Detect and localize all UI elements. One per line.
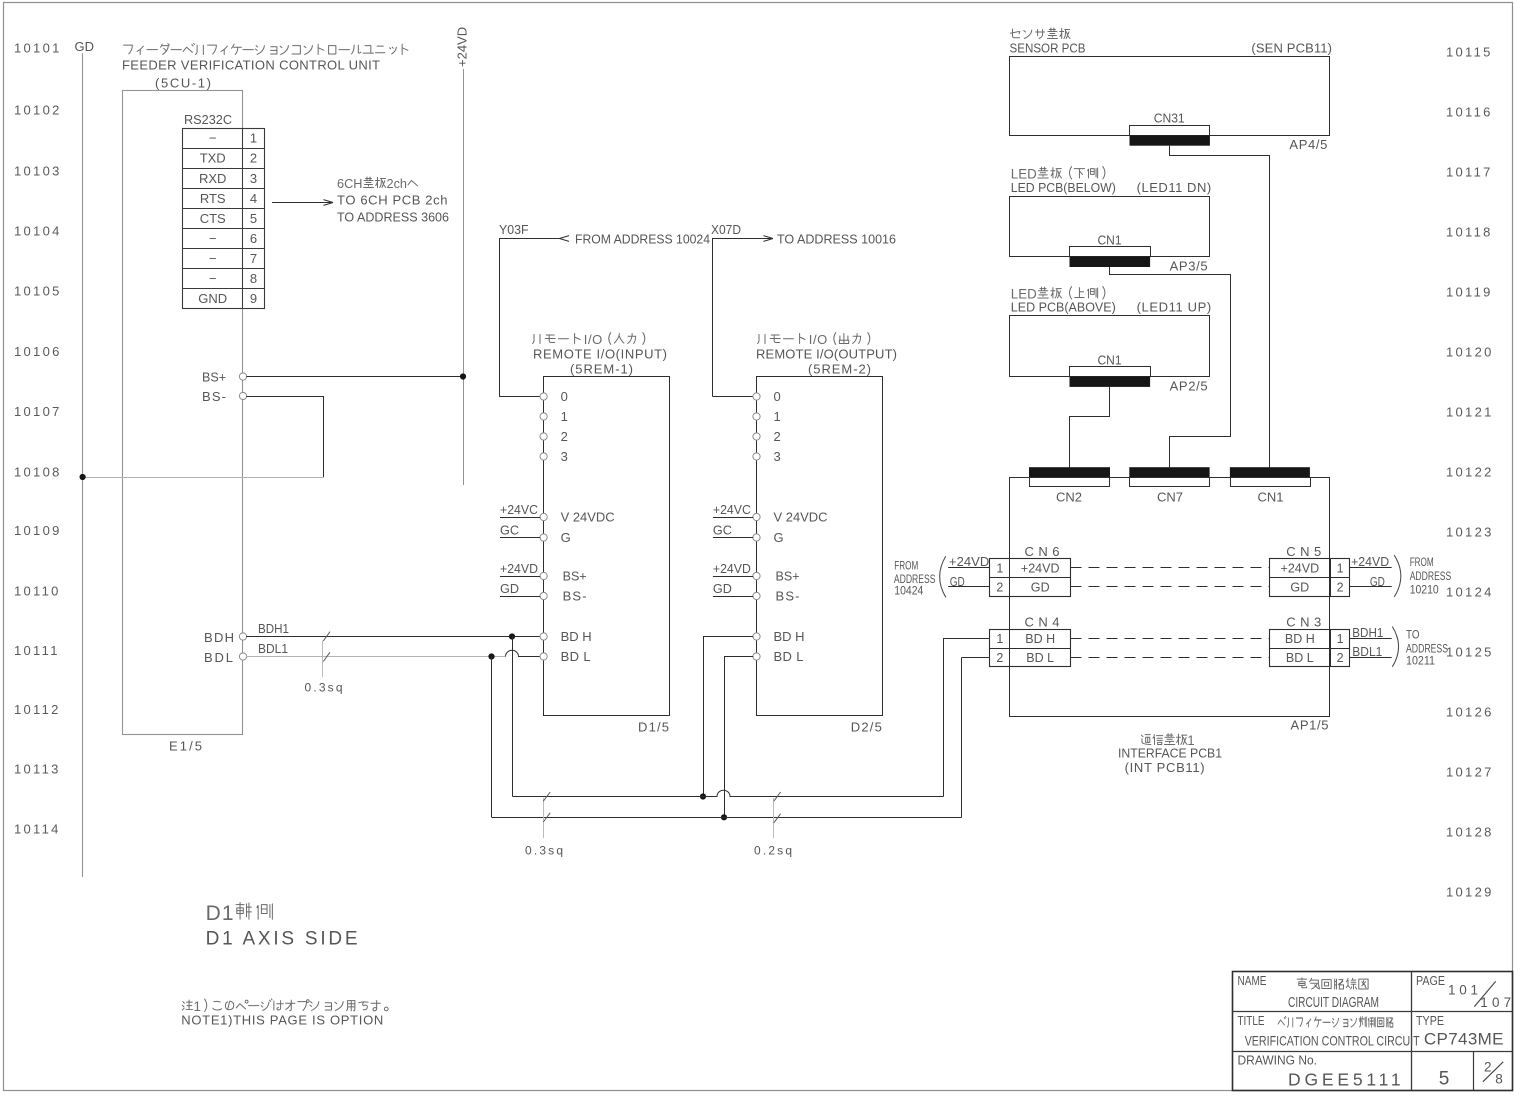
svg-text:BDL1: BDL1 [258,642,288,656]
svg-text:+24VD: +24VD [949,554,989,569]
wire-size slash marks 0.3sq near E1/5 with leader [323,632,331,677]
connector CN1 of LED above [1070,367,1151,387]
bus wire BDH horizontal (hop over D2 BDL drop) [513,790,944,796]
svg-text:CN31: CN31 [1154,111,1185,126]
svg-text:(5CU-1): (5CU-1) [155,76,211,91]
sensor PCB title (Japanese) [1011,28,1071,39]
svg-text:10101: 10101 [14,41,62,56]
stub +24VD out of CN5 [1350,554,1392,569]
pin BS- of D2/5 [753,589,800,604]
connector CN6 pin table [990,559,1071,597]
svg-text:10110: 10110 [14,584,61,599]
module D2/5 title (Japanese) [758,332,870,347]
svg-text:10424: 10424 [894,586,924,598]
svg-text:TO 6CH PCB 2ch: TO 6CH PCB 2ch [337,193,448,208]
dashed wire CN4 to CN3 BD H [1071,638,1270,640]
svg-text:3: 3 [561,449,568,464]
svg-text:5: 5 [1439,1069,1450,1090]
svg-text:BDL: BDL [204,650,233,665]
wire BS+ to +24VD rail [246,376,463,378]
svg-text:2: 2 [1484,1060,1492,1075]
right line-number rail 10115-10129 [1446,45,1494,900]
svg-text:CN1: CN1 [1098,353,1122,368]
svg-text:PAGE: PAGE [1416,974,1445,988]
pin G of D1/5 [540,530,571,545]
pin BD L of D1/5 [540,649,591,664]
wire X07D with arrow to address 10016 [713,236,774,397]
svg-text:1: 1 [561,409,568,424]
wire bus BDL up to CN4 pin2 [962,658,990,818]
svg-text:+24VD: +24VD [1281,562,1320,576]
svg-text:ADDRESS: ADDRESS [1410,571,1452,583]
svg-text:GD: GD [75,39,95,54]
bracket at TO ADDRESS 10211 [1392,627,1398,667]
svg-text:BDH: BDH [204,630,234,645]
svg-text:CN5: CN5 [1286,544,1321,559]
LED PCB below box [1010,197,1210,257]
bracket at FROM ADDRESS 10424 [940,556,946,597]
svg-text:RTS: RTS [200,191,226,206]
svg-text:AP1/5: AP1/5 [1291,718,1329,733]
svg-text:10104: 10104 [14,224,62,239]
svg-text:CIRCUIT DIAGRAM: CIRCUIT DIAGRAM [1288,995,1379,1011]
svg-text:6CH: 6CH [337,176,363,191]
stub GC into D2/5 [713,523,753,538]
label FROM ADDRESS 10210 [1410,557,1452,597]
svg-text:BD L: BD L [1026,651,1054,665]
label D1 axis side (Japanese) [206,902,273,925]
svg-text:CN1: CN1 [1258,490,1284,505]
svg-text:V 24VDC: V 24VDC [561,510,615,525]
svg-text:ADDRESS: ADDRESS [1406,644,1448,656]
svg-text:10108: 10108 [14,465,62,480]
connector CN1 of LED below [1070,247,1151,268]
svg-text:DGEE5111: DGEE5111 [1288,1070,1401,1090]
svg-text:+24VD: +24VD [455,27,470,67]
svg-text:10126: 10126 [1446,705,1494,720]
pins 0-3 of D2/5 [753,389,781,464]
svg-text:2ch: 2ch [387,176,408,191]
svg-text:LED PCB(BELOW): LED PCB(BELOW) [1011,180,1116,195]
svg-text:G: G [561,530,571,545]
wire BS- return to GD rail (light) [83,477,324,479]
wire bus BDH up to CN4 pin1 [943,639,990,797]
connector CN4 pin table [990,629,1071,667]
label FROM ADDRESS 10424 [894,561,936,598]
svg-text:10105: 10105 [14,284,62,299]
module D2/5 box [757,377,883,716]
svg-text:10121: 10121 [1446,405,1494,420]
left line-number rail 10101-10114 [14,41,62,837]
svg-text:RXD: RXD [199,171,226,186]
stub GD out of CN5 [1350,575,1392,589]
svg-text:BDH1: BDH1 [258,622,289,636]
note 1 (Japanese) [182,999,388,1014]
pin BD H of D2/5 [753,629,805,644]
wire BDL1 drop to bus [491,657,493,818]
stub +24VD into CN6 [948,554,990,569]
svg-text:I/O: I/O [584,332,603,347]
svg-text:G: G [774,530,784,545]
svg-text:101: 101 [1448,983,1478,998]
svg-text:V 24VDC: V 24VDC [774,510,828,525]
svg-text:(5REM-2): (5REM-2) [808,362,871,377]
junction dot D2 BDH on bus [700,793,706,799]
svg-text:GD: GD [1031,580,1050,594]
stub +24VD into D2/5 [713,561,753,577]
svg-text:0.3sq: 0.3sq [525,844,563,858]
svg-text:(LED11 UP): (LED11 UP) [1137,300,1212,315]
connector RS232C pin table [183,128,265,309]
pin BS+ of D2/5 [753,569,800,584]
svg-text:Y03F: Y03F [499,223,529,237]
svg-text:CP743ME: CP743ME [1424,1030,1504,1049]
bracket at FROM ADDRESS 10210 [1394,555,1401,597]
connector CN7 on interface [1129,467,1209,504]
svg-text:0: 0 [561,389,568,404]
svg-text:BS-: BS- [563,589,587,604]
svg-text:D2/5: D2/5 [851,720,882,735]
dashed wire CN4 to CN3 BD L [1071,657,1270,659]
svg-text:BS-: BS- [202,389,226,404]
svg-text:0.2sq: 0.2sq [754,844,792,858]
svg-text:9: 9 [250,291,257,306]
svg-text:ADDRESS: ADDRESS [894,574,936,586]
sensor PCB box [1010,57,1330,136]
pins 0-3 of D1/5 [540,389,568,464]
svg-text:FROM: FROM [1410,557,1434,569]
wire LED above CN1 to interface CN2 [1070,387,1110,467]
title feeder verification control unit (Japanese) [124,43,408,54]
svg-text:BD H: BD H [774,629,805,644]
svg-text:6: 6 [250,231,257,246]
svg-text:10106: 10106 [14,344,62,359]
svg-text:TITLE: TITLE [1238,1014,1265,1028]
svg-text:10125: 10125 [1446,645,1494,660]
svg-text:10211: 10211 [1406,656,1435,668]
svg-text:2: 2 [774,429,781,444]
svg-text:BD H: BD H [1285,632,1315,646]
svg-text:GD: GD [1290,580,1309,594]
svg-text:1: 1 [1337,632,1344,646]
pin BD H of D1/5 [540,629,592,644]
stub GD into D1/5 [500,581,540,597]
svg-text:10123: 10123 [1446,525,1494,540]
svg-text:0: 0 [774,389,781,404]
label TO ADDRESS 10211 [1406,630,1448,668]
svg-text:10112: 10112 [14,702,61,717]
svg-text:(SEN PCB11): (SEN PCB11) [1251,41,1332,56]
wire CN31 to interface CN1 [1170,146,1270,468]
wire Y03F with arrow from address 10024 [499,236,569,397]
svg-text:FEEDER VERIFICATION CONTROL UN: FEEDER VERIFICATION CONTROL UNIT [122,58,380,73]
wire BD H of D2/5 to bus [703,637,753,797]
svg-text:NAME: NAME [1238,974,1267,988]
wire GD vertical rail [82,53,84,877]
module D1/5 box [544,377,670,716]
pin G of D2/5 [753,530,784,545]
net +24VD vertical rail with rotated label [455,27,470,485]
stub GC into D1/5 [500,523,540,538]
svg-text:BS+: BS+ [776,569,800,584]
svg-text:10127: 10127 [1446,765,1494,780]
svg-text:CN1: CN1 [1098,233,1122,248]
wire BS- vertical segment [323,396,325,477]
svg-text:2: 2 [1337,651,1344,665]
arrow RS232C to 6CH PCB [272,200,333,206]
title block page number 101/107 [1448,981,1511,1010]
svg-text:10109: 10109 [14,523,62,538]
svg-text:5: 5 [250,211,257,226]
svg-text:2: 2 [996,580,1003,594]
svg-text:+24VD: +24VD [500,561,538,576]
svg-text:10120: 10120 [1446,345,1494,360]
title block circuit diagram (Japanese) [1297,978,1368,989]
wire BDH1 drop to bus [512,637,514,797]
stub GD into D2/5 [713,581,753,597]
pin BS+ of D1/5 [540,569,587,584]
svg-text:TO ADDRESS 10016: TO ADDRESS 10016 [777,232,896,247]
stub BDH1 out of CN3 [1350,626,1392,640]
connector CN1 on interface [1230,467,1311,504]
connector CN2 on interface [1029,467,1110,504]
interface PCB title (Japanese) [1141,733,1194,748]
svg-text:GC: GC [500,523,519,538]
interface PCB box [1010,478,1330,717]
title block sheet 2/8 [1483,1060,1503,1087]
junction dot D2 BDL on bus [721,814,727,820]
svg-text:4: 4 [250,191,257,206]
svg-text:10107: 10107 [14,404,62,419]
stub +24VC into D2/5 [713,502,753,518]
svg-text:−: − [209,131,217,146]
svg-text:LED PCB(ABOVE): LED PCB(ABOVE) [1011,300,1116,315]
junction dot on GD rail line 10108 [80,474,86,480]
svg-text:AP4/5: AP4/5 [1289,137,1327,152]
connector CN5 pin table [1269,559,1350,597]
module D1/5 title (Japanese) [533,332,645,347]
wire BDL1 from E1/5 to 5REM-1 (light, hop over BDH drop) [246,656,505,658]
svg-text:BDL1: BDL1 [1352,645,1382,659]
svg-text:REMOTE I/O(INPUT): REMOTE I/O(INPUT) [533,347,667,362]
svg-text:1: 1 [1337,562,1344,576]
svg-text:TO ADDRESS 3606: TO ADDRESS 3606 [337,210,449,225]
svg-text:10103: 10103 [14,164,62,179]
wire-size slash marks 0.2sq on bus with leader [774,792,781,838]
svg-text:+24VD: +24VD [713,561,751,576]
title block verification control circuit (Japanese, condensed) [1278,1016,1393,1027]
svg-text:10119: 10119 [1446,285,1493,300]
svg-text:GD: GD [500,581,519,596]
stub +24VD into D1/5 [500,561,540,577]
svg-text:10116: 10116 [1446,105,1493,120]
svg-text:(5REM-1): (5REM-1) [570,362,633,377]
svg-text:GND: GND [198,291,227,306]
svg-text:10210: 10210 [1410,585,1439,597]
unit E1/5 box [123,91,243,735]
junction dot BS+/+24VD [460,373,466,379]
svg-text:1: 1 [996,632,1003,646]
svg-text:CN3: CN3 [1286,615,1321,630]
svg-text:TYPE: TYPE [1416,1014,1444,1028]
svg-text:8: 8 [250,271,257,286]
svg-text:I/O: I/O [809,332,828,347]
svg-text:+24VC: +24VC [713,502,751,517]
junction dot BDL1 tap [488,653,494,659]
svg-text:REMOTE I/O(OUTPUT): REMOTE I/O(OUTPUT) [756,347,897,362]
svg-text:+24VD: +24VD [1021,562,1060,576]
svg-text:E1/5: E1/5 [169,739,202,754]
label 6CH PCB 2ch (Japanese) [337,176,418,191]
pin BS+ of E1/5 [202,370,247,385]
svg-text:CN2: CN2 [1056,490,1082,505]
svg-text:+24VD: +24VD [1351,554,1389,569]
svg-text:(LED11 DN): (LED11 DN) [1137,180,1212,195]
svg-text:NOTE1)THIS PAGE IS OPTION: NOTE1)THIS PAGE IS OPTION [181,1013,383,1028]
pin BS- of E1/5 [202,389,247,404]
svg-text:CTS: CTS [200,211,226,226]
pin BD L of D2/5 [753,649,804,664]
bus wire BDL horizontal [492,817,962,819]
wire-size slash marks 0.3sq on bus with leader [543,792,550,838]
svg-text:10115: 10115 [1446,45,1493,60]
svg-text:BD L: BD L [561,649,591,664]
svg-text:X07D: X07D [711,223,741,237]
svg-text:BS-: BS- [776,589,800,604]
svg-text:BDH1: BDH1 [1352,626,1383,640]
wire BDH1 from E1/5 to 5REM-1 [246,636,540,638]
svg-text:RS232C: RS232C [184,112,232,127]
svg-text:VERIFICATION CONTROL CIRCUIT: VERIFICATION CONTROL CIRCUIT [1245,1033,1420,1049]
svg-text:10122: 10122 [1446,465,1494,480]
svg-text:10114: 10114 [14,822,61,837]
svg-text:TO: TO [1406,630,1420,642]
svg-text:0.3sq: 0.3sq [305,681,343,695]
svg-text:D1/5: D1/5 [638,720,669,735]
svg-text:10102: 10102 [14,103,62,118]
svg-text:10129: 10129 [1446,885,1494,900]
dashed wire CN6 to CN5 GD [1071,586,1270,588]
svg-text:2: 2 [996,651,1003,665]
svg-text:GD: GD [713,581,732,596]
svg-text:2: 2 [561,429,568,444]
svg-text:3: 3 [250,171,257,186]
pin V 24VDC of D1/5 [540,510,615,525]
LED PCB above title (Japanese) [1011,287,1105,302]
svg-text:TXD: TXD [200,151,226,166]
wire BD L of D2/5 to bus [724,657,753,818]
svg-text:−: − [209,251,217,266]
svg-text:1: 1 [774,409,781,424]
svg-text:GC: GC [713,523,732,538]
svg-text:AP3/5: AP3/5 [1170,259,1208,274]
svg-text:7: 7 [250,251,257,266]
svg-text:2: 2 [1337,580,1344,594]
svg-text:CN6: CN6 [1025,544,1060,559]
svg-text:1: 1 [996,562,1003,576]
svg-text:INTERFACE PCB1: INTERFACE PCB1 [1118,746,1222,761]
svg-text:BS+: BS+ [202,370,226,385]
svg-text:BD L: BD L [1286,651,1314,665]
svg-text:10111: 10111 [14,643,60,658]
svg-text:2: 2 [250,151,257,166]
dashed wire CN6 to CN5 +24VD [1071,567,1270,569]
LED PCB below title (Japanese) [1011,167,1105,182]
svg-text:D1: D1 [206,902,234,925]
svg-text:DRAWING No.: DRAWING No. [1238,1053,1318,1068]
svg-text:D1 AXIS SIDE: D1 AXIS SIDE [206,929,358,950]
junction dot BDH1 tap [509,633,515,639]
svg-text:3: 3 [774,449,781,464]
svg-text:BD H: BD H [1025,632,1055,646]
svg-text:10128: 10128 [1446,825,1494,840]
pin BS- of D1/5 [540,589,587,604]
stub BDL1 out of CN3 [1350,645,1392,659]
pin BDH of E1/5 [204,630,247,645]
svg-text:(INT PCB11): (INT PCB11) [1125,760,1205,775]
connector CN31 [1130,126,1210,146]
svg-text:107: 107 [1480,995,1511,1010]
svg-text:SENSOR PCB: SENSOR PCB [1010,41,1086,56]
svg-text:AP2/5: AP2/5 [1170,379,1208,394]
svg-text:CN7: CN7 [1157,490,1183,505]
svg-text:+24VC: +24VC [500,502,538,517]
title block frame [1232,972,1513,1091]
svg-text:1: 1 [250,131,257,146]
wire BS- right segment [246,396,323,398]
svg-text:BD H: BD H [561,629,592,644]
stub +24VC into D1/5 [500,502,540,518]
pin BDL of E1/5 [204,650,247,665]
pin V 24VDC of D2/5 [753,510,828,525]
LED PCB above box [1010,316,1210,377]
stub GD into CN6 [948,575,990,589]
svg-text:CN4: CN4 [1025,615,1060,630]
svg-text:8: 8 [1495,1072,1503,1087]
svg-text:10118: 10118 [1446,225,1493,240]
svg-text:FROM: FROM [894,561,918,573]
svg-text:10117: 10117 [1446,165,1493,180]
svg-text:10113: 10113 [14,762,61,777]
svg-text:−: − [209,231,217,246]
svg-text:−: − [209,271,217,286]
connector CN3 pin table [1269,629,1350,667]
svg-text:BD L: BD L [774,649,804,664]
svg-text:10124: 10124 [1446,585,1494,600]
svg-text:FROM ADDRESS 10024: FROM ADDRESS 10024 [575,232,710,247]
wire LED below CN1 to interface CN7 [1110,267,1231,467]
svg-text:BS+: BS+ [563,569,587,584]
